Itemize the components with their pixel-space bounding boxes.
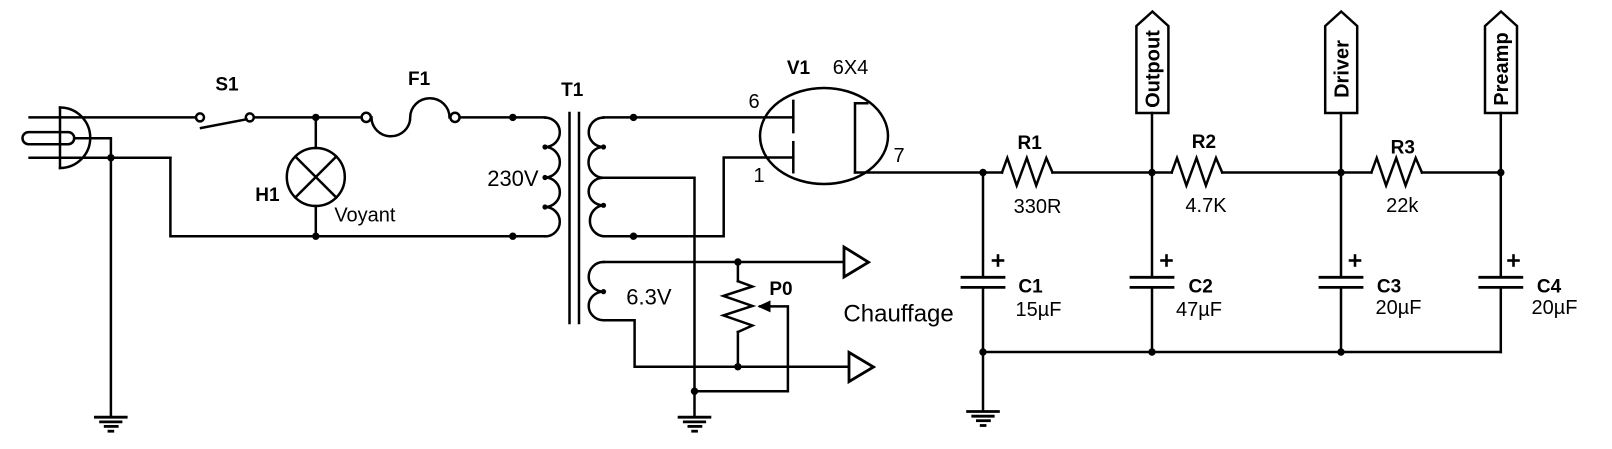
wire earth pin to ground <box>74 138 111 416</box>
node primary top terminal <box>509 114 516 121</box>
resistor R2 <box>1172 158 1223 186</box>
svg-text:47µF: 47µF <box>1176 299 1222 321</box>
tube V1 anode 1 (pin 6) <box>792 101 795 132</box>
transformer T1 6.3V winding <box>589 262 606 320</box>
node center tap / wiper junction <box>691 388 698 395</box>
capacitor C4 <box>1480 173 1522 353</box>
flag Driver <box>1325 12 1357 173</box>
wire HV top to tube pin 6 <box>604 116 794 119</box>
svg-text:Chauffage: Chauffage <box>843 301 953 328</box>
resistor R1 <box>1002 158 1053 186</box>
lamp H1 <box>287 117 345 236</box>
tube V1 anode 2 (pin 1) <box>792 142 795 172</box>
svg-text:7: 7 <box>893 145 904 167</box>
svg-text:R3: R3 <box>1391 138 1415 159</box>
mains plug <box>23 108 91 169</box>
svg-text:4.7K: 4.7K <box>1185 195 1227 217</box>
node lamp bottom junction <box>312 233 319 240</box>
svg-text:Preamp: Preamp <box>1491 32 1513 105</box>
fuse F1 <box>362 98 460 136</box>
svg-text:20µF: 20µF <box>1532 297 1578 319</box>
node C1 bottom junction <box>979 348 986 355</box>
C4 polarity plus <box>1509 256 1519 266</box>
P0 wiper arrow <box>695 300 788 391</box>
wire switch to fuse <box>254 116 362 119</box>
wire bottom rail (neutral) <box>170 158 545 237</box>
transformer T1 core <box>570 113 580 323</box>
capacitor C2 <box>1131 173 1173 353</box>
node primary bottom terminal <box>509 233 516 240</box>
connector heater bottom (triangle) <box>849 352 874 381</box>
ground (center tap) <box>679 417 710 431</box>
ground (filter) <box>968 412 999 426</box>
svg-text:S1: S1 <box>215 75 239 96</box>
wire B+ rail <box>855 171 1501 174</box>
tube V1 cathode (pin 7) <box>855 103 867 172</box>
capacitor C3 <box>1320 173 1362 353</box>
svg-text:230V: 230V <box>487 166 539 191</box>
svg-text:6: 6 <box>748 91 759 113</box>
transformer T1 primary winding <box>542 118 559 237</box>
node Preamp junction <box>1497 169 1504 176</box>
node Driver junction <box>1337 169 1344 176</box>
wire 6.3V top to heater connector <box>604 261 843 264</box>
potentiometer P0 <box>723 262 752 367</box>
wire HV bottom to tube pin 1 <box>604 158 794 237</box>
flag Preamp <box>1485 12 1517 173</box>
svg-text:6X4: 6X4 <box>833 57 869 79</box>
flag Outpout <box>1136 12 1168 173</box>
svg-text:22k: 22k <box>1386 195 1419 217</box>
svg-text:F1: F1 <box>408 69 431 90</box>
wire ground rail <box>983 351 1501 354</box>
node Output junction <box>1148 169 1155 176</box>
tube V1 envelope <box>760 88 888 184</box>
C3 polarity plus <box>1350 256 1360 266</box>
connector heater top (triangle) <box>844 247 869 277</box>
node earth-neutral junction <box>107 154 114 161</box>
svg-text:15µF: 15µF <box>1016 299 1062 321</box>
wire 6.3V bottom to heater connector <box>604 320 848 367</box>
transformer T1 HV secondary winding <box>589 118 607 237</box>
node C1 top junction <box>979 169 986 176</box>
wire C1 ground stem <box>982 352 985 411</box>
wire phase prong <box>30 116 196 119</box>
svg-text:C3: C3 <box>1377 277 1401 298</box>
svg-text:Driver: Driver <box>1331 40 1353 98</box>
svg-text:R2: R2 <box>1192 132 1216 153</box>
svg-text:Voyant: Voyant <box>334 205 396 227</box>
C1 polarity plus <box>993 256 1003 266</box>
svg-text:R1: R1 <box>1018 133 1043 154</box>
node C3 bottom junction <box>1337 348 1344 355</box>
svg-text:C2: C2 <box>1189 277 1213 298</box>
svg-text:Outpout: Outpout <box>1143 30 1165 108</box>
node P0 top junction <box>734 258 741 265</box>
wire HV center tap to ground <box>604 178 695 416</box>
node lamp top junction <box>312 114 319 121</box>
svg-text:20µF: 20µF <box>1376 297 1422 319</box>
svg-text:C1: C1 <box>1018 277 1043 298</box>
resistor R3 <box>1371 158 1422 186</box>
wire fuse to transformer primary <box>460 116 545 119</box>
ground (mains earth) <box>95 417 126 431</box>
svg-text:H1: H1 <box>255 185 280 206</box>
svg-text:6.3V: 6.3V <box>626 285 672 310</box>
svg-text:V1: V1 <box>787 58 811 79</box>
svg-text:330R: 330R <box>1014 196 1062 218</box>
wire neutral prong <box>30 156 171 159</box>
node HV top terminal <box>630 114 637 121</box>
C2 polarity plus <box>1162 256 1172 266</box>
node P0 bottom junction <box>734 363 741 370</box>
capacitor C1 <box>962 173 1004 353</box>
svg-text:T1: T1 <box>561 80 584 101</box>
svg-text:1: 1 <box>753 165 764 187</box>
svg-text:P0: P0 <box>769 279 792 300</box>
node C2 bottom junction <box>1148 348 1155 355</box>
svg-text:C4: C4 <box>1537 277 1562 298</box>
node HV bottom terminal <box>630 233 637 240</box>
switch S1 <box>196 113 254 128</box>
